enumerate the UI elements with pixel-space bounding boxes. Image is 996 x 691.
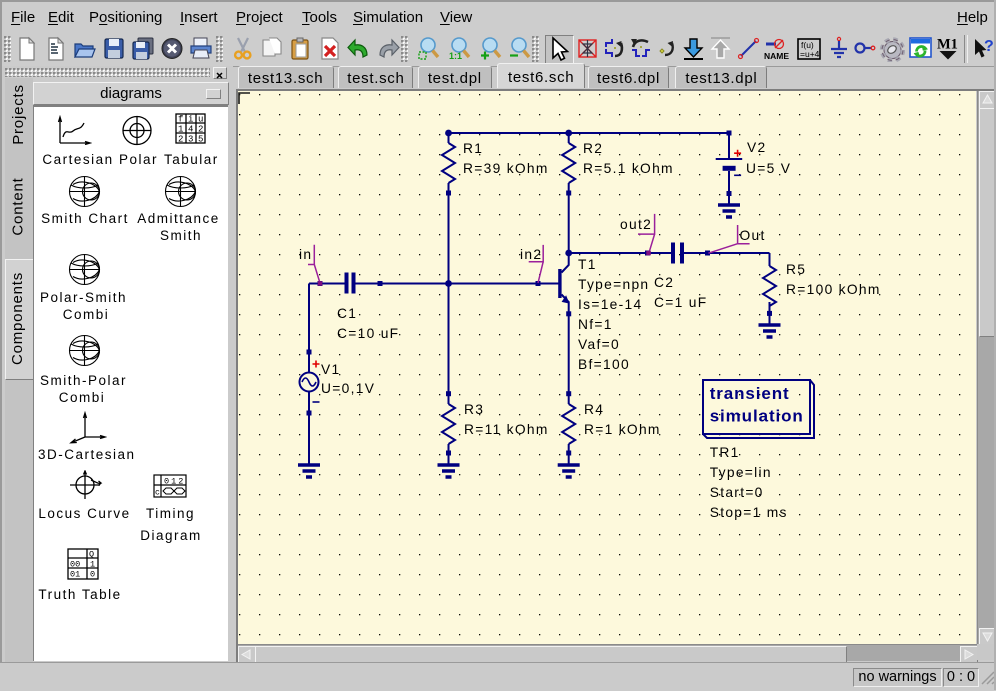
svg-text:R=11 kOhm: R=11 kOhm (464, 422, 549, 437)
svg-text:out2: out2 (620, 217, 652, 232)
svg-text:012: 012 (164, 477, 185, 487)
svg-text:i: i (188, 115, 193, 125)
svg-text:U=5 V: U=5 V (746, 161, 791, 176)
svg-text:Bf=100: Bf=100 (578, 357, 630, 372)
svg-text:Out: Out (740, 228, 766, 243)
svg-text:transient: transient (710, 384, 790, 403)
svg-text:5: 5 (198, 135, 203, 145)
svg-text:V2: V2 (747, 140, 766, 155)
svg-text:R1: R1 (463, 141, 483, 156)
svg-text:V1: V1 (321, 362, 340, 377)
svg-text:f: f (178, 115, 183, 125)
svg-text:Is=1e-14: Is=1e-14 (578, 297, 642, 312)
svg-text:00: 00 (70, 560, 80, 570)
svg-text:U=0,1V: U=0,1V (321, 381, 375, 396)
svg-text:Type=npn: Type=npn (578, 277, 649, 292)
svg-text:?: ? (984, 38, 994, 55)
svg-text:simulation: simulation (710, 407, 804, 426)
svg-text:R=39 kOhm: R=39 kOhm (463, 161, 549, 176)
svg-text:4: 4 (188, 125, 193, 135)
svg-text:T1: T1 (578, 257, 597, 272)
svg-text:3: 3 (188, 135, 193, 145)
svg-text:C=1 uF: C=1 uF (654, 295, 707, 310)
svg-text:C2: C2 (654, 275, 674, 290)
svg-text:R5: R5 (786, 262, 806, 277)
svg-text:Nf=1: Nf=1 (578, 317, 613, 332)
svg-text:R2: R2 (583, 141, 603, 156)
svg-text:01: 01 (70, 570, 80, 580)
svg-text:Q: Q (89, 550, 94, 560)
svg-text:1: 1 (90, 560, 95, 570)
svg-text:R4: R4 (584, 402, 604, 417)
svg-text:C=10 uF: C=10 uF (337, 326, 399, 341)
svg-text:=u+4: =u+4 (800, 49, 820, 59)
svg-text:Type=lin: Type=lin (710, 465, 772, 480)
svg-text:R=1 kOhm: R=1 kOhm (584, 422, 661, 437)
svg-text:Vaf=0: Vaf=0 (578, 337, 620, 352)
svg-text:u: u (198, 115, 203, 125)
svg-text:2: 2 (198, 125, 203, 135)
svg-text:M1: M1 (937, 37, 958, 53)
svg-text:in: in (299, 247, 312, 262)
svg-text:0: 0 (90, 570, 95, 580)
svg-text:Start=0: Start=0 (710, 485, 764, 500)
svg-text:C1: C1 (337, 306, 357, 321)
svg-text:1: 1 (178, 125, 183, 135)
svg-text:NAME: NAME (764, 51, 789, 61)
svg-text:c: c (155, 489, 160, 498)
svg-text:in2: in2 (520, 247, 542, 262)
svg-text:R=5.1 kOhm: R=5.1 kOhm (583, 161, 674, 176)
svg-text:2: 2 (178, 135, 183, 145)
svg-text:1:1: 1:1 (449, 51, 462, 61)
svg-text:TR1: TR1 (710, 445, 740, 460)
svg-text:Stop=1 ms: Stop=1 ms (710, 505, 788, 520)
svg-text:R3: R3 (464, 402, 484, 417)
svg-text:R=100 kOhm: R=100 kOhm (786, 282, 881, 297)
